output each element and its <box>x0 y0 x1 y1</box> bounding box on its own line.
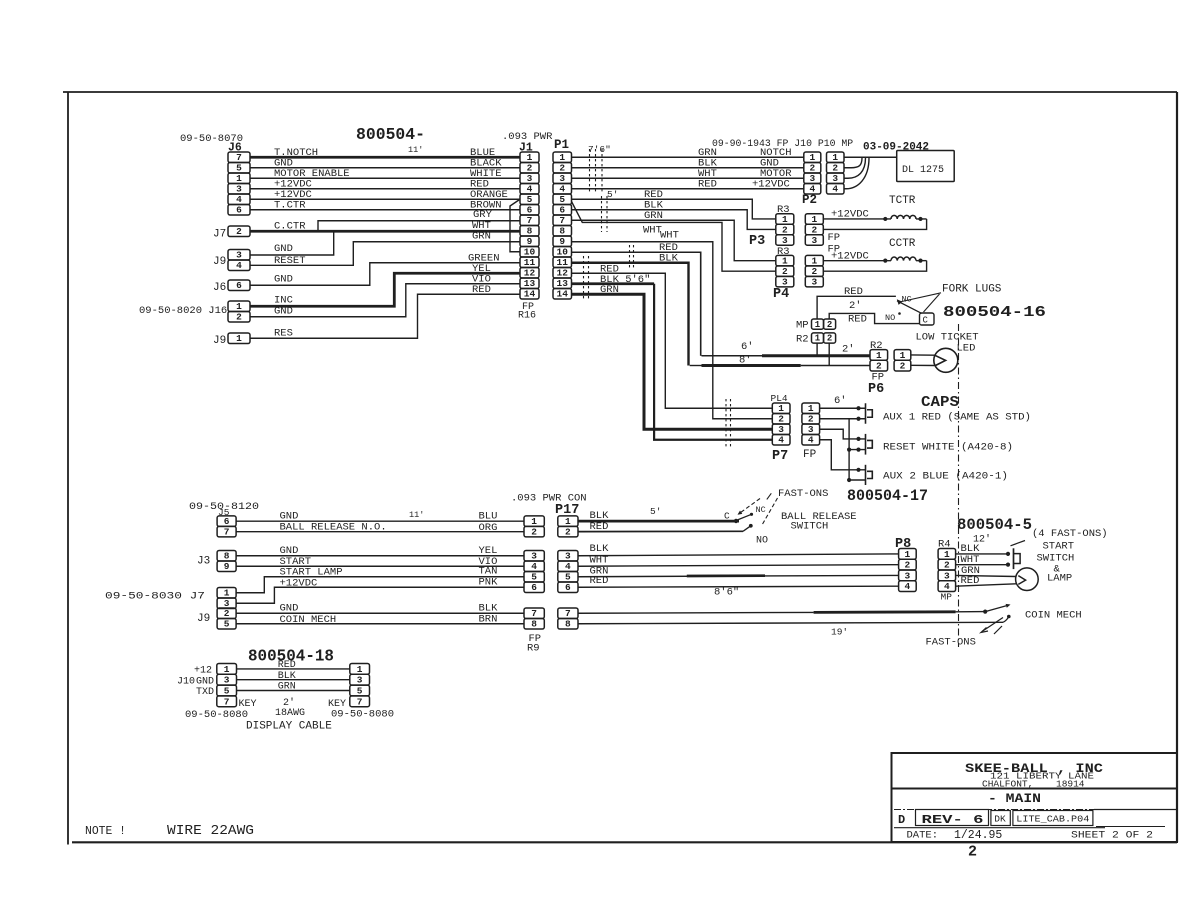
label FP (P6) <box>872 372 885 384</box>
svg-text:P7: P7 <box>772 449 788 464</box>
svg-text:GRN: GRN <box>472 231 491 243</box>
svg-text:12: 12 <box>557 268 569 279</box>
jumper J1.5 to J1.10 <box>510 199 520 252</box>
label WHT <box>698 168 717 180</box>
svg-text:2: 2 <box>559 163 565 174</box>
label 09-50-8120 <box>189 501 259 513</box>
wire START J3.9 to P17.4 (VIO) <box>236 565 524 567</box>
svg-text:9: 9 <box>224 561 230 572</box>
wire GND J5.6 to P17.1 (BLU) <box>236 520 524 522</box>
svg-text:1: 1 <box>900 350 906 361</box>
cable bundle marks P1.5-7 <box>602 196 608 232</box>
svg-text:7: 7 <box>565 608 571 619</box>
svg-text:4: 4 <box>236 260 242 271</box>
label 11 ft <box>408 145 423 155</box>
svg-text:1: 1 <box>565 516 571 527</box>
wire RED P17.2 to ball release NO <box>578 524 753 532</box>
svg-text:1: 1 <box>782 214 788 225</box>
label T.NOTCH <box>274 147 318 159</box>
connector P3 mate <box>805 214 823 246</box>
svg-text:2: 2 <box>782 224 788 235</box>
label 6' <box>741 341 754 353</box>
label DISPLAY CABLE <box>246 721 332 733</box>
svg-text:WIRE 22AWG: WIRE 22AWG <box>167 824 254 839</box>
connector MP b <box>824 319 836 330</box>
svg-text:R16: R16 <box>518 311 536 322</box>
svg-text:2: 2 <box>236 312 242 323</box>
label FAST-ONS (coin) <box>926 637 976 649</box>
svg-text:4: 4 <box>236 194 242 205</box>
svg-text:6: 6 <box>531 582 537 593</box>
label GND <box>280 511 299 523</box>
label R2 <box>796 334 809 346</box>
wire P1.2 to P2.2 (BLK/GND) <box>572 167 804 169</box>
svg-text:3: 3 <box>811 235 817 246</box>
label BLK <box>590 510 610 522</box>
label WHT <box>961 554 980 566</box>
label ORANGE <box>470 189 508 201</box>
label P3 <box>749 234 765 249</box>
label .093 PWR <box>502 131 553 143</box>
capacitor RESET <box>866 434 873 455</box>
svg-text:5': 5' <box>650 506 661 517</box>
svg-text:1: 1 <box>944 549 950 560</box>
label J3 <box>197 556 210 568</box>
label GND <box>274 158 293 170</box>
label WHT <box>472 220 491 232</box>
label 2' 18AWG <box>275 697 305 719</box>
cable bundle marks P1.1-4 <box>590 149 603 194</box>
label R3 (P4) <box>777 246 790 258</box>
label P8 <box>895 537 911 552</box>
label GND <box>274 306 293 318</box>
svg-text:9: 9 <box>559 236 565 247</box>
svg-text:1: 1 <box>811 214 817 225</box>
svg-text:1: 1 <box>782 256 788 267</box>
label 11' <box>409 510 424 520</box>
svg-text:J7: J7 <box>213 229 226 241</box>
svg-text:1: 1 <box>808 403 814 414</box>
svg-text:12: 12 <box>524 268 536 279</box>
svg-text:2: 2 <box>224 608 230 619</box>
title rev box REV- 6 <box>916 810 989 828</box>
svg-text:3: 3 <box>809 173 815 184</box>
svg-text:BRN: BRN <box>479 614 498 626</box>
svg-text:14: 14 <box>524 289 536 300</box>
svg-text:1: 1 <box>224 664 230 675</box>
svg-text:1: 1 <box>531 516 537 527</box>
svg-text:5: 5 <box>224 686 230 697</box>
svg-text:800504-5: 800504-5 <box>957 516 1032 534</box>
wire J6.4 to J1.5 (+12VDC/ORANGE) <box>250 198 520 200</box>
svg-text:C.CTR: C.CTR <box>274 221 306 233</box>
label AUX 2 BLUE (A420-1) <box>883 471 1008 483</box>
label GND <box>274 274 293 286</box>
label RED <box>848 314 867 326</box>
wire GND J16.2 to J1.13 (VIO) <box>250 284 520 317</box>
svg-text:LAMP: LAMP <box>1047 573 1072 585</box>
svg-text:RED: RED <box>961 575 980 587</box>
label +12 GND TXD J10 <box>177 666 214 699</box>
label 09-50-8030 J7 <box>105 591 205 603</box>
connector P17 cable 7-8 <box>524 608 544 630</box>
svg-text:6: 6 <box>527 205 533 216</box>
connector J7 <box>228 226 250 237</box>
label RES <box>274 328 293 340</box>
label 8' <box>739 355 752 367</box>
svg-text:CCTR: CCTR <box>889 238 916 250</box>
inductor CCTR <box>891 257 916 261</box>
label START <box>280 556 312 568</box>
svg-text:2: 2 <box>827 334 832 344</box>
svg-text:1: 1 <box>357 664 363 675</box>
connector display cable right <box>350 664 370 708</box>
wire P1.4 to P2.4 (RED/+12VDC) <box>572 188 804 190</box>
label NC (ball release) <box>756 505 766 515</box>
fork lugs pointer lines <box>900 293 942 312</box>
start lamp symbol <box>1016 568 1039 591</box>
label RED <box>600 264 619 276</box>
svg-text:RED: RED <box>844 286 863 298</box>
wire bundle P2 mate to DL1275 <box>844 157 897 189</box>
label GRN <box>961 565 980 577</box>
svg-text:18914: 18914 <box>1056 779 1085 790</box>
label 09-50-8070 <box>180 133 243 145</box>
wire WHT R4.2 to start switch <box>956 563 1011 567</box>
label GRY <box>473 209 493 221</box>
label 12' <box>973 534 991 546</box>
label MP <box>796 320 809 332</box>
svg-text:13: 13 <box>524 278 536 289</box>
label .093 PWR CON <box>511 493 587 505</box>
label J9 <box>213 256 226 268</box>
title block frame <box>892 753 1178 842</box>
svg-text:5: 5 <box>527 194 533 205</box>
svg-text:5': 5' <box>607 189 618 200</box>
svg-text:RED: RED <box>848 314 867 326</box>
label P1 <box>554 138 569 152</box>
svg-text:8: 8 <box>527 226 533 237</box>
connector P6 mate <box>894 350 911 372</box>
svg-text:2: 2 <box>531 527 537 538</box>
label BLK <box>590 543 610 555</box>
label START LAMP <box>280 567 343 579</box>
svg-text:4: 4 <box>832 184 838 195</box>
svg-text:CAPS: CAPS <box>921 394 959 411</box>
label GRN <box>600 284 619 296</box>
label T.CTR <box>274 200 306 212</box>
svg-text:3: 3 <box>782 235 788 246</box>
svg-text:14: 14 <box>557 289 569 300</box>
connector P4 mate <box>805 255 823 287</box>
connector P3 <box>776 214 794 246</box>
svg-text:WHT: WHT <box>660 230 679 242</box>
svg-text:PNK: PNK <box>479 577 499 589</box>
svg-text:8: 8 <box>565 619 571 630</box>
label BALL RELEASE SWITCH <box>781 511 857 533</box>
label BLACK <box>470 158 502 170</box>
wire J6.7 to J1.1 (T.NOTCH/BLUE) <box>250 156 520 159</box>
wire FP.4 to cap AUX2 top <box>820 440 866 472</box>
svg-text:800504-17: 800504-17 <box>847 487 928 505</box>
svg-text:800504-: 800504- <box>356 126 425 145</box>
svg-text:6: 6 <box>565 582 571 593</box>
wire FP.2 to cap AUX1 bottom and common <box>820 417 866 482</box>
cable bundle marks P7 wires <box>726 399 731 447</box>
label 2' <box>849 300 862 312</box>
svg-text:J9: J9 <box>213 256 226 268</box>
svg-text:RED: RED <box>472 284 491 296</box>
label +12VDC <box>752 179 790 191</box>
svg-text:7'6": 7'6" <box>588 144 611 155</box>
label BLK <box>698 158 718 170</box>
svg-text:3: 3 <box>224 675 230 686</box>
svg-text:GND: GND <box>274 243 293 255</box>
svg-text:C: C <box>724 511 730 522</box>
wire RED MP.1 to fork lug NC <box>817 296 896 319</box>
svg-text:7: 7 <box>527 215 533 226</box>
connector display cable left <box>217 664 237 708</box>
wire START LAMP J7.1 to P17.5 (TAN) <box>236 577 524 593</box>
wire GRN P1.14 to P7.3 <box>572 294 773 429</box>
svg-text:11: 11 <box>557 257 569 268</box>
svg-text:2: 2 <box>236 226 242 237</box>
label BLK <box>961 543 981 555</box>
label 5' <box>650 506 661 517</box>
label BLK <box>479 603 499 615</box>
connector P6 <box>870 350 888 372</box>
label GRN <box>698 147 717 159</box>
svg-text:FAST-ONS: FAST-ONS <box>778 488 828 500</box>
connector J7 lamp <box>217 588 236 610</box>
label GND <box>280 545 299 557</box>
ball release switch blade C to NC <box>736 513 753 521</box>
svg-text:7: 7 <box>531 608 537 619</box>
svg-text:8: 8 <box>224 551 230 562</box>
svg-text:J10: J10 <box>177 676 195 687</box>
label C <box>724 511 730 522</box>
svg-text:START: START <box>1043 541 1075 553</box>
svg-text:3: 3 <box>944 570 950 581</box>
label FAST-ONS (ball release) <box>778 488 828 500</box>
svg-text:2: 2 <box>900 361 906 372</box>
svg-text:+12VDC: +12VDC <box>752 179 790 191</box>
label BLUE <box>470 147 495 159</box>
svg-text:2: 2 <box>778 414 784 425</box>
label MOTOR <box>760 168 792 180</box>
label FP FP <box>828 232 841 256</box>
svg-text:R9: R9 <box>527 643 540 655</box>
label YEL <box>479 545 498 557</box>
svg-text:RED: RED <box>590 575 609 587</box>
wire GRN P17 to P8 <box>578 575 899 576</box>
label +12VDC <box>280 578 318 590</box>
wire GRN display <box>237 690 350 692</box>
label P2 <box>802 193 817 207</box>
label GRN <box>590 566 609 578</box>
wire BLK P1.6 to P3.2 <box>572 210 776 230</box>
svg-text:MP: MP <box>941 592 953 603</box>
svg-text:5: 5 <box>559 194 565 205</box>
svg-text:J6: J6 <box>213 282 226 294</box>
label WHT <box>590 555 609 567</box>
label WHT <box>660 230 679 242</box>
svg-text:5: 5 <box>224 619 230 630</box>
label J6 pin6 <box>213 282 226 294</box>
svg-text:3: 3 <box>778 424 784 435</box>
svg-text:4: 4 <box>559 184 565 195</box>
label BLK 5'6" <box>600 274 650 286</box>
wire J6.6 to J1.6 (T.CTR/BROWN) <box>250 209 520 211</box>
wire RESET J9.4 to J1.9 (GRN) <box>250 242 520 266</box>
svg-text:09-50-8080: 09-50-8080 <box>185 709 248 721</box>
svg-text:13: 13 <box>557 278 569 289</box>
wire BLK P17 to P8 <box>578 554 899 556</box>
wire BLK P17.7 to coin mech <box>578 604 1011 614</box>
svg-text:NO: NO <box>756 536 768 547</box>
connector MP <box>812 319 824 330</box>
connector J3 <box>217 551 236 573</box>
label 09-50-8080 right <box>331 709 394 721</box>
wire BALL RELEASE J5.7 to P17.2 (ORG) <box>236 531 524 533</box>
label KEY right <box>328 699 346 710</box>
svg-text:RES: RES <box>274 328 293 340</box>
connector P2 <box>804 152 821 195</box>
wire P1.3 to P2.3 (WHT/MOTOR) <box>572 177 804 179</box>
title 121 LIBERTY LANE <box>990 771 1094 782</box>
label RESET WHITE (A420-8) <box>883 442 1013 454</box>
svg-text:GRN: GRN <box>600 284 619 296</box>
svg-text:FP: FP <box>828 232 841 244</box>
svg-text:18AWG: 18AWG <box>275 708 305 719</box>
svg-text:3: 3 <box>905 570 911 581</box>
svg-text:3: 3 <box>357 675 363 686</box>
svg-text:7: 7 <box>357 696 363 707</box>
svg-text:5: 5 <box>531 572 537 583</box>
connector P17 cable 3-6 <box>524 551 544 594</box>
label GRN <box>472 231 491 243</box>
wire BLK 5'6" P1.13 to P7.4 <box>572 284 773 440</box>
svg-text:4: 4 <box>778 435 784 446</box>
svg-text:COIN MECH: COIN MECH <box>1025 610 1082 622</box>
wire J6.3 to J1.4 (+12VDC/RED) <box>250 188 520 190</box>
wire 6ft P1.10 run to P6.1 <box>702 355 871 357</box>
svg-text:1: 1 <box>224 588 230 599</box>
svg-text:6: 6 <box>224 516 230 527</box>
svg-text:1: 1 <box>811 256 817 267</box>
wire BLK P1.11 down to 8ft run <box>572 263 689 366</box>
svg-text:8'6": 8'6" <box>714 587 739 599</box>
svg-text:DL 1275: DL 1275 <box>902 165 944 176</box>
wire RED P17 to P8 <box>578 586 899 587</box>
label J6 <box>228 142 242 155</box>
svg-text:2: 2 <box>527 163 533 174</box>
svg-text:1: 1 <box>527 152 533 163</box>
svg-text:2: 2 <box>811 266 817 277</box>
wire R2.2 tap <box>828 343 830 365</box>
svg-text:P2: P2 <box>802 193 817 207</box>
connector J1 <box>520 152 539 300</box>
cable bundle marks trunk <box>584 245 634 300</box>
svg-text:R2: R2 <box>796 334 809 346</box>
label RED <box>590 521 609 533</box>
title rev box DK <box>991 811 1010 826</box>
svg-text:2: 2 <box>944 560 950 571</box>
title rev row line <box>894 809 1177 811</box>
wire BLK R4.1 to start switch <box>956 552 1011 556</box>
svg-text:2: 2 <box>782 266 788 277</box>
connector R4 <box>938 549 956 593</box>
label BLK <box>278 671 296 682</box>
label BLK <box>644 200 664 212</box>
svg-text:3: 3 <box>559 173 565 184</box>
svg-text:GRN: GRN <box>278 682 296 693</box>
label NO (ball release) <box>756 536 768 547</box>
fast-ons pointer arrows <box>738 493 778 525</box>
svg-text:6: 6 <box>236 205 242 216</box>
connector P17 cable 1-2 <box>524 516 544 538</box>
svg-text:5: 5 <box>565 572 571 583</box>
svg-text:2: 2 <box>808 414 814 425</box>
svg-text:P3: P3 <box>749 234 765 249</box>
svg-text:T.CTR: T.CTR <box>274 200 306 212</box>
wire GRY branch to J1.7 <box>318 221 520 232</box>
svg-text:6: 6 <box>236 280 242 291</box>
wire WHT P17 to P8 <box>578 565 899 567</box>
label MP (R4) <box>941 592 953 603</box>
label CCTR <box>889 238 916 250</box>
border frame bottom <box>72 841 1177 843</box>
svg-text:BLU: BLU <box>479 511 498 523</box>
wire J6.1 to J1.3 (MOTOR ENABLE/WHITE) <box>250 177 520 179</box>
wire GND J6.6 to J1.11 (GREEN) <box>250 263 520 286</box>
wire RED MP.2 to fork lug C <box>829 313 919 323</box>
label +12VDC (CCTR) <box>831 251 869 263</box>
svg-text:P1: P1 <box>554 138 569 152</box>
svg-text:7: 7 <box>224 527 230 538</box>
svg-text:1: 1 <box>809 152 815 163</box>
svg-text:1: 1 <box>815 320 821 330</box>
svg-text:BLK: BLK <box>590 543 610 555</box>
start switch symbol <box>1014 548 1021 569</box>
ticket dispenser DL 1275 <box>897 151 955 182</box>
svg-text:3: 3 <box>811 277 817 288</box>
label VIO <box>479 556 498 568</box>
svg-text:RED: RED <box>698 179 717 191</box>
svg-text:3: 3 <box>531 551 537 562</box>
wire BLK P17.1 to ball release C <box>578 519 739 523</box>
svg-text:COIN MECH: COIN MECH <box>280 614 337 626</box>
svg-text:RESET WHITE (A420-8): RESET WHITE (A420-8) <box>883 442 1013 454</box>
label R3 (P3) <box>777 204 790 216</box>
label WHT <box>643 225 662 237</box>
wire INC J16.1 to J1.12 (YEL) <box>250 273 520 306</box>
svg-text:7: 7 <box>224 696 230 707</box>
label P17 <box>555 503 579 518</box>
capacitor AUX 1 <box>866 403 873 424</box>
svg-text:+12VDC: +12VDC <box>280 578 318 590</box>
label GRN <box>278 682 296 693</box>
svg-text:4: 4 <box>944 581 950 592</box>
svg-text:6: 6 <box>559 205 565 216</box>
svg-text:RESET: RESET <box>274 255 306 267</box>
dash-dot separator line <box>958 324 960 647</box>
label 8'6" <box>714 587 739 599</box>
svg-text:BLK: BLK <box>278 671 296 682</box>
svg-text:1/24.95: 1/24.95 <box>954 829 1002 842</box>
label GRN <box>644 210 663 222</box>
svg-text:BLK: BLK <box>659 253 679 265</box>
